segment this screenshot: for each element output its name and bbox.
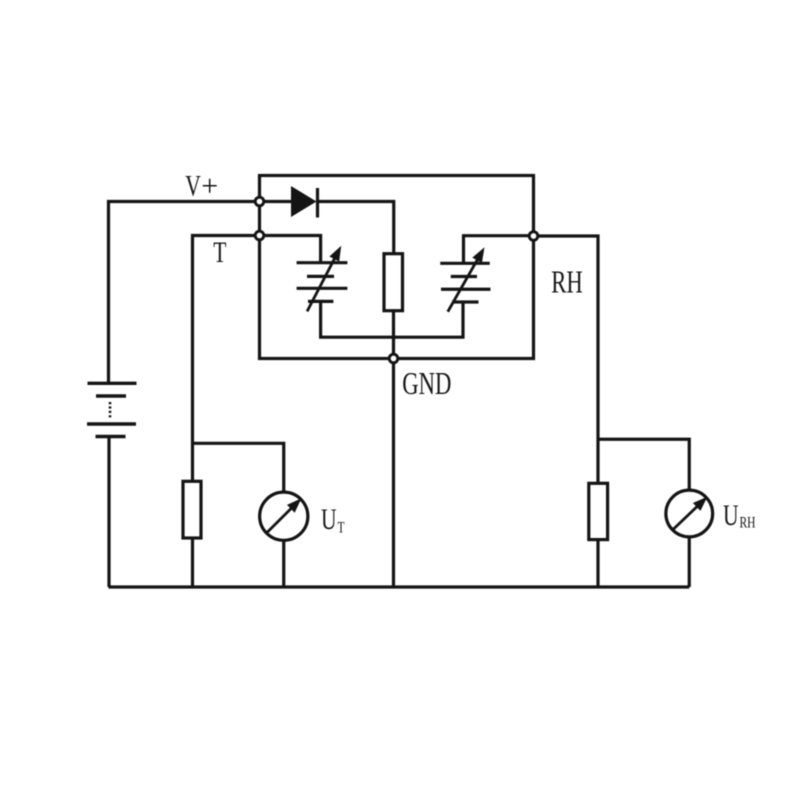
svg-text:V: V	[185, 169, 201, 202]
svg-text:RH: RH	[551, 265, 583, 299]
svg-text:GND: GND	[402, 366, 451, 400]
svg-text:+: +	[201, 169, 218, 202]
svg-text:T: T	[338, 520, 345, 537]
svg-text:T: T	[213, 236, 226, 269]
svg-text:RH: RH	[740, 515, 756, 532]
svg-text:U: U	[723, 499, 739, 532]
svg-text:U: U	[321, 503, 337, 536]
